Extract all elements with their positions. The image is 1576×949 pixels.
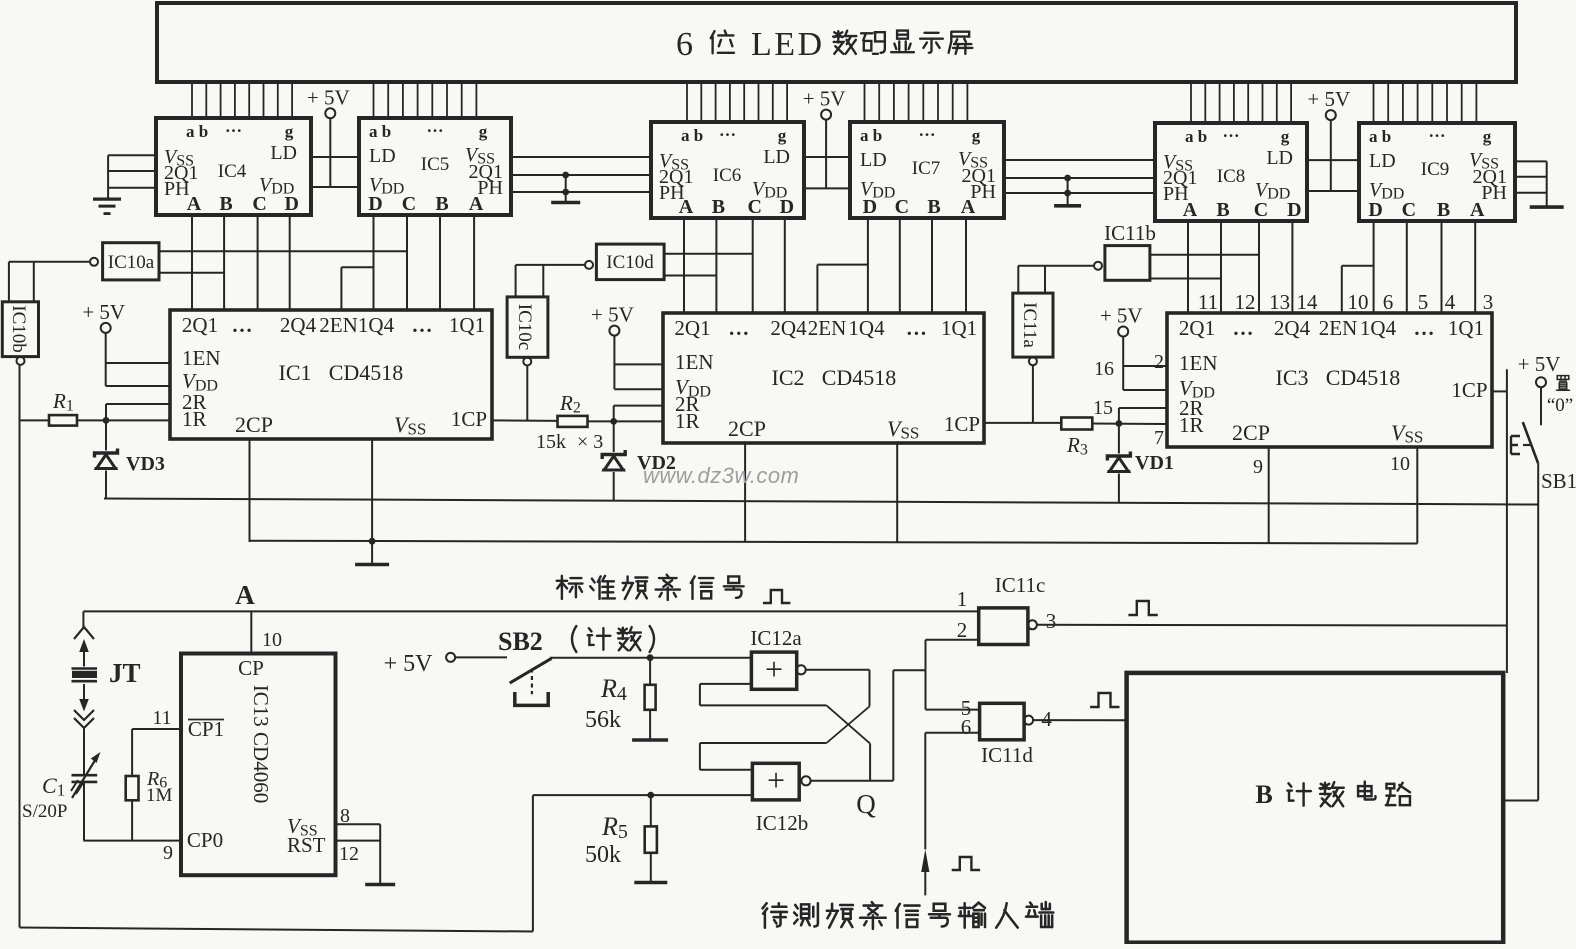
svg-text:1R: 1R [675,409,700,433]
svg-text:+ 5V: + 5V [1307,87,1350,111]
svg-text:…: … [728,316,749,340]
svg-text:A: A [961,196,976,218]
svg-text:a b: a b [369,122,391,141]
svg-text:g: g [479,122,488,141]
svg-text:+ 5V: + 5V [591,303,634,327]
svg-text:CP1: CP1 [188,717,224,741]
svg-text:+: + [767,762,785,798]
svg-text:2Q4: 2Q4 [770,316,807,340]
svg-text:B: B [927,196,940,218]
svg-text:S/20P: S/20P [22,801,67,822]
svg-text:8: 8 [340,805,350,827]
svg-text:g: g [778,126,787,145]
svg-text:C: C [252,193,266,215]
svg-text:2EN: 2EN [808,316,847,340]
svg-text:a b: a b [186,122,208,141]
svg-text:B: B [435,193,448,215]
svg-text:7: 7 [1154,427,1164,449]
svg-text:IC1: IC1 [279,360,312,385]
svg-text:CD4518: CD4518 [822,365,897,390]
svg-text:A: A [679,196,694,218]
svg-text:“0”: “0” [1547,395,1573,416]
svg-text:12: 12 [1235,290,1256,314]
svg-text:IC11c: IC11c [995,573,1046,597]
svg-text:1M: 1M [146,785,173,806]
svg-text:…: … [412,313,433,337]
svg-text:9: 9 [1253,456,1263,478]
svg-text:IC6: IC6 [713,165,742,186]
svg-text:50k: 50k [585,842,621,868]
svg-text:14: 14 [1297,290,1319,314]
svg-text:…: … [719,121,736,140]
svg-text:JT: JT [109,658,141,688]
svg-text:…: … [1429,122,1446,141]
svg-text:CP0: CP0 [187,828,223,852]
svg-text:16: 16 [1094,358,1114,380]
svg-text:2Q1: 2Q1 [674,316,710,340]
svg-text:2Q1: 2Q1 [182,313,218,337]
svg-text:CP: CP [238,656,264,680]
svg-text:RST: RST [287,833,326,857]
svg-text:A: A [469,193,484,215]
svg-text:VD1: VD1 [1135,452,1174,474]
svg-text:13: 13 [1269,290,1290,314]
svg-text:10: 10 [262,629,282,651]
svg-text:SB1: SB1 [1541,469,1576,493]
svg-text:1Q1: 1Q1 [449,313,485,337]
svg-text:A: A [1470,199,1485,221]
svg-text:3: 3 [1046,609,1057,633]
svg-text:1: 1 [957,587,968,611]
svg-text:+ 5V: + 5V [307,85,350,109]
svg-text:2CP: 2CP [728,416,766,441]
svg-text:IC10d: IC10d [606,252,654,273]
svg-text:2: 2 [1154,351,1164,373]
svg-text:2CP: 2CP [235,412,273,437]
svg-text:LD: LD [1266,147,1293,169]
svg-text:1Q1: 1Q1 [941,316,977,340]
svg-text:a b: a b [1185,127,1207,146]
svg-text:2EN: 2EN [319,313,358,337]
svg-text:6: 6 [676,26,693,63]
svg-text:IC11a: IC11a [1019,302,1040,348]
svg-text:3: 3 [1483,290,1494,314]
svg-text:LD: LD [369,145,396,167]
svg-text:g: g [285,122,294,141]
svg-text:IC10a: IC10a [108,252,155,273]
svg-text:2: 2 [957,618,968,642]
svg-text:IC11b: IC11b [1104,221,1156,245]
svg-text:2Q4: 2Q4 [280,313,317,337]
svg-text:www.dz3w.com: www.dz3w.com [643,463,799,488]
svg-text:C: C [1254,199,1268,221]
svg-text:+ 5V: + 5V [384,651,434,677]
svg-text:IC8: IC8 [1217,166,1246,187]
svg-text:+ 5V: + 5V [1100,304,1143,328]
svg-text:…: … [225,117,242,136]
svg-text:IC7: IC7 [912,158,941,179]
svg-text:D: D [1368,199,1382,221]
svg-text:Q: Q [856,789,876,819]
svg-text:1EN: 1EN [182,346,221,370]
svg-text:1Q4: 1Q4 [358,313,395,337]
svg-text:2Q4: 2Q4 [1274,316,1311,340]
svg-text:g: g [1281,127,1290,146]
svg-text:…: … [1223,122,1240,141]
svg-text:B: B [219,193,232,215]
svg-text:4: 4 [1041,707,1052,731]
svg-text:LD: LD [763,146,790,168]
svg-text:4: 4 [1445,290,1456,314]
svg-text:+ 5V: + 5V [82,300,125,324]
svg-text:B: B [1216,199,1229,221]
svg-text:a b: a b [860,126,882,145]
svg-text:A: A [187,193,202,215]
svg-text:C: C [895,196,909,218]
svg-text:2EN: 2EN [1319,316,1358,340]
svg-text:× 3: × 3 [577,431,603,453]
svg-text:…: … [919,121,936,140]
svg-text:2CP: 2CP [1232,420,1270,445]
svg-text:PH: PH [1481,182,1507,204]
svg-text:9: 9 [163,842,173,864]
svg-text:10: 10 [1348,290,1369,314]
svg-text:10: 10 [1390,453,1410,475]
svg-text:6: 6 [1383,290,1394,314]
svg-text:B: B [1437,199,1450,221]
svg-text:IC11d: IC11d [981,743,1033,767]
svg-text:SB2: SB2 [498,627,543,656]
svg-text:…: … [906,316,927,340]
svg-text:LD: LD [860,149,887,171]
svg-text:a b: a b [681,126,703,145]
svg-text:IC10b: IC10b [8,305,29,353]
svg-text:11: 11 [152,707,171,729]
svg-text:IC9: IC9 [1421,159,1450,180]
svg-text:D: D [1287,199,1301,221]
svg-text:A: A [235,580,255,610]
svg-text:1EN: 1EN [1179,351,1218,375]
svg-text:D: D [863,196,877,218]
svg-text:15k: 15k [536,431,566,453]
svg-text:B: B [1255,780,1272,809]
svg-text:1Q4: 1Q4 [848,316,885,340]
svg-text:11: 11 [1198,290,1218,314]
svg-text:IC4: IC4 [218,161,247,182]
svg-text:IC13 CD4060: IC13 CD4060 [249,685,273,803]
svg-text:PH: PH [164,178,190,200]
svg-text:g: g [972,126,981,145]
svg-text:LED: LED [751,26,825,63]
svg-text:…: … [232,313,253,337]
svg-text:D: D [284,193,298,215]
svg-text:2Q1: 2Q1 [1179,316,1215,340]
svg-text:IC5: IC5 [421,154,450,175]
svg-text:g: g [1483,127,1492,146]
svg-text:…: … [1233,316,1254,340]
svg-text:12: 12 [339,843,359,865]
svg-text:IC2: IC2 [772,365,805,390]
svg-text:1CP: 1CP [451,407,487,431]
svg-text:5: 5 [1418,290,1429,314]
svg-text:B: B [712,196,725,218]
svg-text:CD4518: CD4518 [1326,365,1401,390]
svg-text:1CP: 1CP [944,412,980,436]
svg-text:LD: LD [270,142,297,164]
svg-text:+ 5V: + 5V [1518,352,1561,376]
svg-text:D: D [368,193,382,215]
svg-text:+ 5V: + 5V [803,87,846,111]
svg-text:1CP: 1CP [1451,378,1487,402]
svg-text:IC10c: IC10c [514,304,535,350]
svg-text:IC12b: IC12b [756,811,809,835]
svg-text:VD3: VD3 [126,453,165,475]
svg-text:56k: 56k [585,707,621,733]
svg-text:1Q4: 1Q4 [1360,316,1397,340]
svg-text:6: 6 [961,715,972,739]
svg-text:C: C [402,193,416,215]
svg-text:IC3: IC3 [1276,365,1309,390]
svg-text:1EN: 1EN [675,350,714,374]
svg-text:D: D [780,196,794,218]
svg-text:…: … [427,117,444,136]
svg-text:15: 15 [1093,397,1113,419]
svg-text:1Q1: 1Q1 [1448,316,1484,340]
svg-text:C: C [1402,199,1416,221]
svg-text:…: … [1414,316,1435,340]
svg-text:IC12a: IC12a [750,626,802,650]
svg-text:+: + [765,651,783,687]
svg-text:1R: 1R [182,407,207,431]
svg-text:LD: LD [1369,150,1396,172]
svg-text:C: C [747,196,761,218]
svg-text:CD4518: CD4518 [329,360,404,385]
svg-text:a b: a b [1369,127,1391,146]
svg-text:1R: 1R [1179,413,1204,437]
svg-text:A: A [1183,199,1198,221]
